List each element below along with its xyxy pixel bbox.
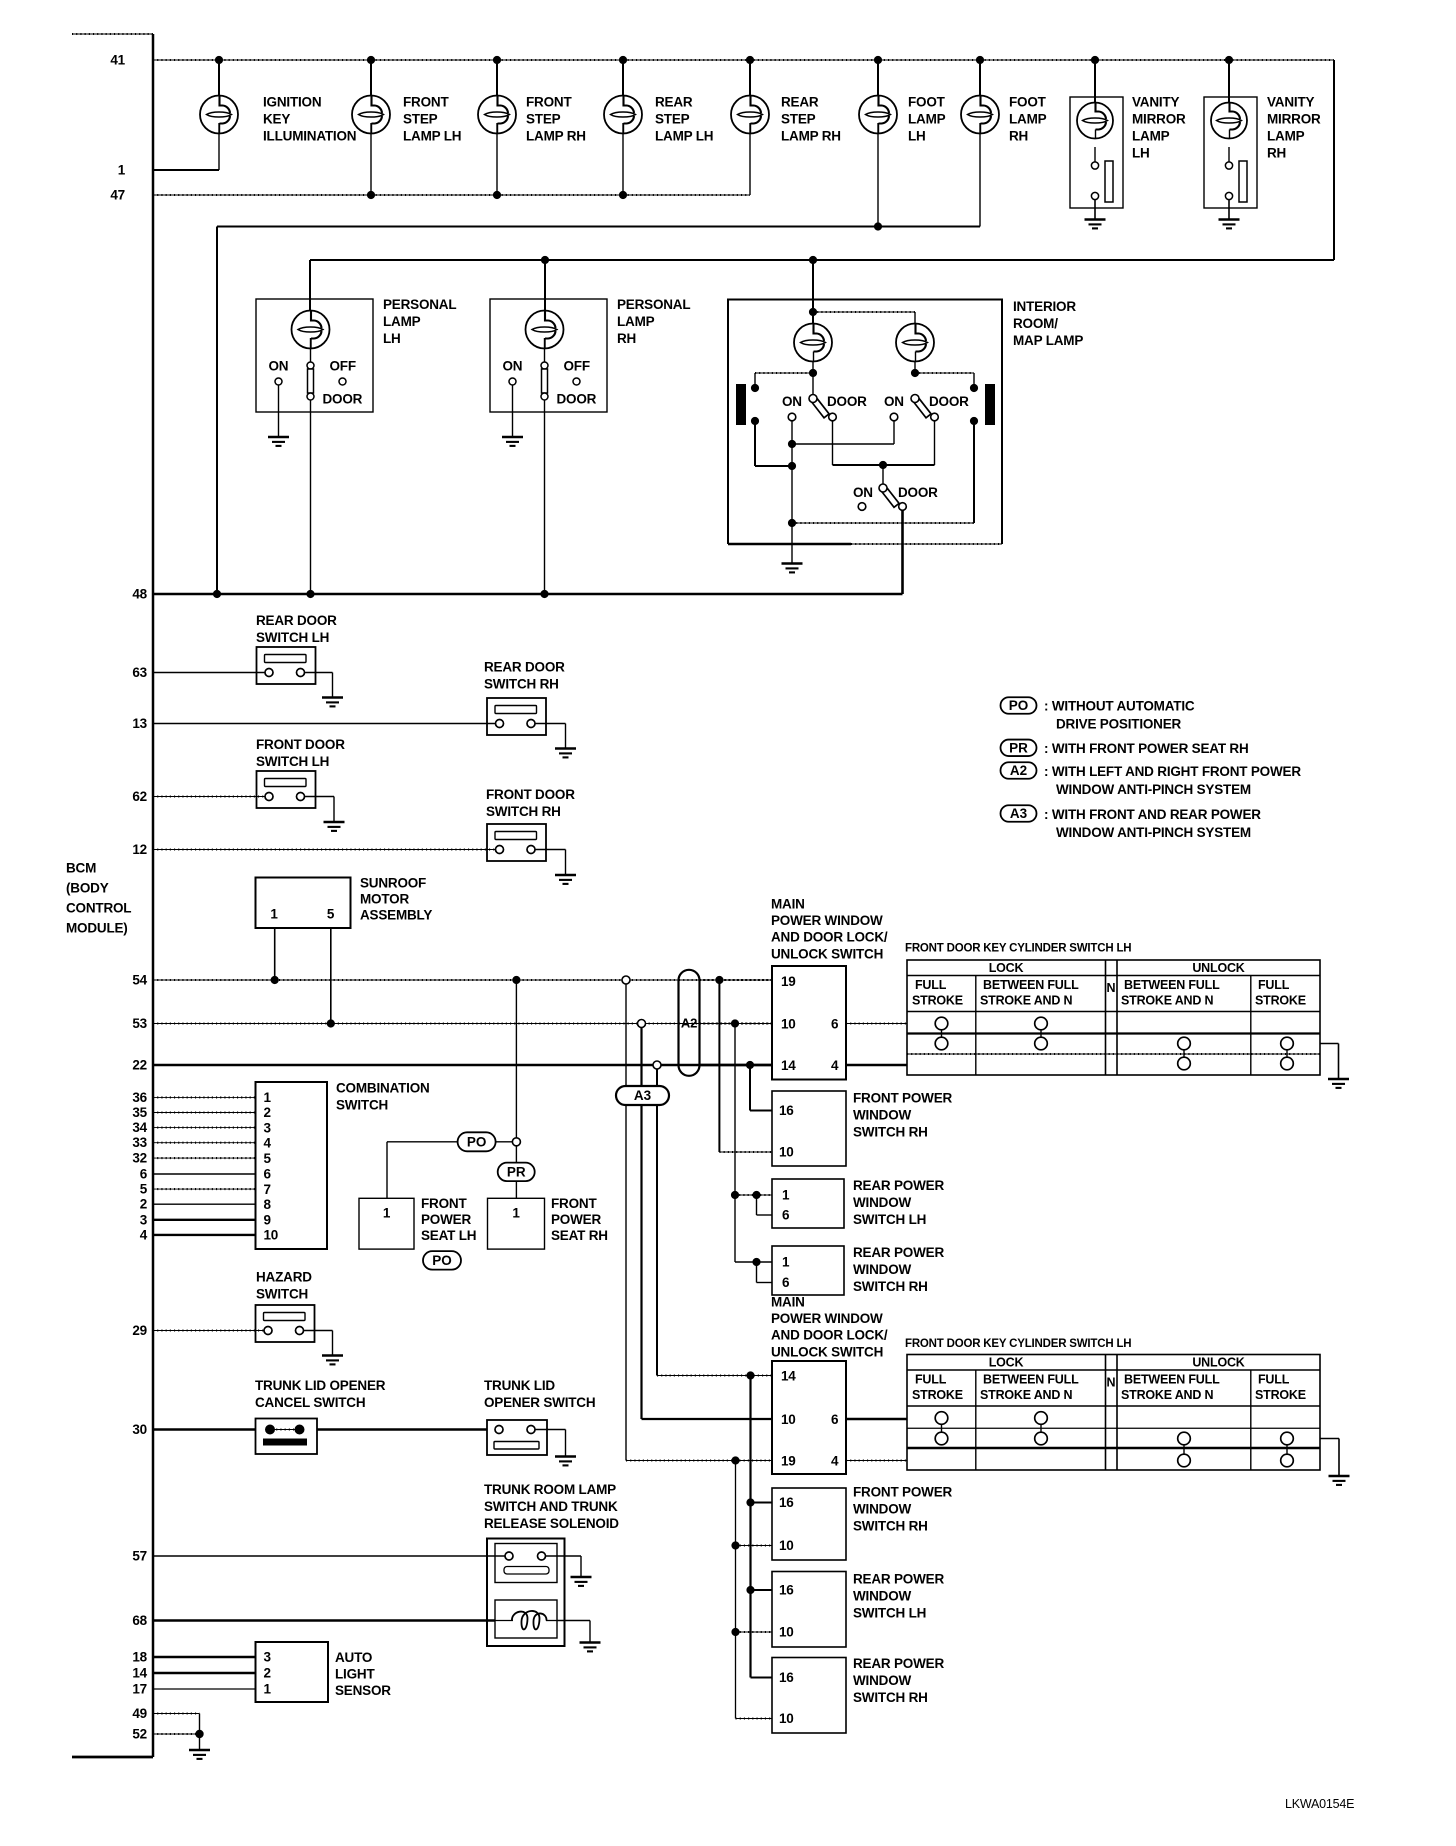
wire sunroof pin 1 to 54	[274, 928, 276, 980]
label: IGNITION ILLUMINATION	[263, 95, 356, 144]
label: personal lamp LH	[383, 297, 456, 346]
auto light sensor	[256, 1642, 329, 1702]
interior lamp right connector bar	[970, 384, 995, 425]
wire sunroof pin 5 to 53	[330, 928, 332, 1024]
svg-text:DOOR: DOOR	[323, 392, 363, 407]
svg-text:STROKE: STROKE	[1255, 1388, 1306, 1402]
label: rear door switch LH	[256, 613, 337, 645]
svg-text:62: 62	[132, 789, 147, 804]
svg-text:9: 9	[264, 1213, 271, 1228]
interior lamp switch 2	[890, 395, 938, 421]
svg-text:PO: PO	[432, 1253, 452, 1268]
svg-text:STEP: STEP	[781, 112, 816, 127]
label: combination switch	[336, 1081, 430, 1113]
interior lamp bulb 2	[896, 324, 934, 362]
label: FOOT RH	[1009, 95, 1047, 144]
svg-text:A2: A2	[1010, 763, 1027, 778]
front power seat RH	[488, 1198, 545, 1249]
svg-text:5: 5	[264, 1151, 272, 1166]
svg-text:FOOT: FOOT	[908, 95, 946, 110]
svg-text:STROKE: STROKE	[912, 1388, 963, 1402]
interior lamp switch 1 labels	[782, 394, 867, 409]
svg-text:FULL: FULL	[1258, 978, 1290, 992]
interior lamp switch 1	[788, 395, 836, 421]
svg-text:REAR POWER: REAR POWER	[853, 1656, 944, 1671]
bulb: front step lamp RH	[478, 96, 516, 134]
wire 53 branch to rear power window switches	[731, 1024, 772, 1283]
front door switch LH	[257, 771, 316, 808]
svg-text:LOCK: LOCK	[989, 961, 1024, 975]
junctions on wire 41	[215, 56, 1233, 64]
svg-text:FRONT: FRONT	[526, 95, 572, 110]
svg-text:: WITH FRONT POWER SEAT RH: : WITH FRONT POWER SEAT RH	[1044, 741, 1249, 756]
lamp feed wire x=219	[218, 60, 220, 96]
svg-text:41: 41	[110, 53, 125, 68]
svg-text:LAMP: LAMP	[1132, 129, 1170, 144]
svg-text:A2: A2	[681, 1015, 697, 1030]
svg-text:MIRROR: MIRROR	[1132, 112, 1186, 127]
combination switch	[256, 1082, 328, 1249]
label: main power window and door lock/unlock switch 2	[771, 1295, 888, 1360]
wire pin 63	[153, 672, 266, 674]
svg-text:AUTO: AUTO	[335, 1650, 372, 1665]
BCM connector edge (vertical bus line)	[152, 34, 155, 1757]
wire pin 17	[153, 1688, 256, 1690]
trunk room lamp switch and release solenoid box	[487, 1539, 565, 1647]
wire main switch 1 pin 4 to key cylinder	[846, 1064, 907, 1067]
svg-text:6: 6	[831, 1017, 839, 1032]
svg-text:POWER WINDOW: POWER WINDOW	[771, 1311, 883, 1326]
svg-text:PR: PR	[507, 1164, 526, 1179]
wire pin 14	[153, 1672, 256, 1675]
svg-text:FULL: FULL	[1258, 1373, 1290, 1387]
front door key cylinder switch table (lower)	[907, 1355, 1320, 1471]
svg-text:REAR POWER: REAR POWER	[853, 1245, 944, 1260]
wire pin 30	[153, 1428, 487, 1431]
trunk lid opener switch	[487, 1420, 547, 1455]
svg-text:SWITCH: SWITCH	[336, 1098, 388, 1113]
svg-text:SEAT LH: SEAT LH	[421, 1228, 476, 1243]
wire: foot lamp return to pin 47 branch	[217, 123, 980, 594]
label: trunk lid opener cancel switch	[255, 1378, 386, 1410]
wire PO capsule to front power seat LH	[387, 1142, 458, 1199]
svg-text:1: 1	[782, 1255, 790, 1270]
key cylinder lower ground	[1320, 1439, 1350, 1485]
rear power window switch LH 1	[772, 1179, 844, 1228]
svg-text:LAMP RH: LAMP RH	[526, 129, 586, 144]
lamp feed wire x=371	[370, 60, 372, 96]
BCM bottom-left stub wire	[72, 1756, 153, 1759]
svg-text:19: 19	[781, 1454, 796, 1469]
trunk room lamp switch	[495, 1544, 557, 1583]
svg-text:16: 16	[779, 1495, 794, 1510]
legend PO capsule	[1001, 697, 1037, 714]
svg-text:UNLOCK SWITCH: UNLOCK SWITCH	[771, 946, 883, 961]
svg-text:SENSOR: SENSOR	[335, 1683, 391, 1698]
label: sunroof motor assembly	[360, 876, 432, 923]
svg-text:MIRROR: MIRROR	[1267, 112, 1321, 127]
PR option capsule	[498, 1163, 535, 1182]
svg-text:BETWEEN FULL: BETWEEN FULL	[1124, 978, 1220, 992]
svg-text:WINDOW: WINDOW	[853, 1673, 911, 1688]
label: FOOT LH	[908, 95, 946, 144]
wire 48 (door switch bus)	[153, 590, 903, 598]
svg-text:34: 34	[132, 1120, 147, 1135]
svg-text:4: 4	[831, 1058, 839, 1073]
svg-text:RH: RH	[1267, 146, 1286, 161]
svg-text:STEP: STEP	[526, 112, 561, 127]
wire: 54 branch down to switch 2 pin 19	[626, 984, 772, 1465]
svg-text:LAMP: LAMP	[1009, 112, 1047, 127]
personal lamp LH	[256, 299, 373, 594]
bulb: ignition key illumination	[200, 96, 238, 134]
svg-text:17: 17	[132, 1682, 147, 1697]
wire 54 branch to power seats	[515, 980, 517, 1138]
svg-text:LAMP: LAMP	[908, 112, 946, 127]
svg-text:SWITCH RH: SWITCH RH	[853, 1125, 928, 1140]
svg-text:AND DOOR LOCK/: AND DOOR LOCK/	[771, 930, 888, 945]
svg-text:SUNROOF: SUNROOF	[360, 876, 426, 891]
wire 22 branch to front power window switch RH pin 16	[750, 1065, 772, 1111]
svg-text:ILLUMINATION: ILLUMINATION	[263, 129, 356, 144]
bulb: rear step lamp RH	[731, 96, 769, 134]
svg-text:LAMP: LAMP	[383, 314, 421, 329]
svg-text:A3: A3	[634, 1088, 652, 1103]
svg-text:UNLOCK: UNLOCK	[1192, 961, 1244, 975]
rear door switch LH	[257, 647, 316, 684]
bulb: foot lamp LH	[859, 96, 897, 134]
svg-text:OFF: OFF	[564, 359, 590, 374]
svg-text:STEP: STEP	[655, 112, 690, 127]
svg-text:SEAT RH: SEAT RH	[551, 1228, 608, 1243]
front door switch RH ground	[535, 850, 577, 884]
svg-text:BETWEEN FULL: BETWEEN FULL	[983, 1373, 1079, 1387]
svg-text:CANCEL SWITCH: CANCEL SWITCH	[255, 1395, 365, 1410]
svg-text:FRONT DOOR KEY CYLINDER SWITCH: FRONT DOOR KEY CYLINDER SWITCH LH	[905, 943, 1131, 955]
svg-text:ON: ON	[269, 359, 289, 374]
svg-text:MOTOR: MOTOR	[360, 892, 409, 907]
PO option capsule	[458, 1132, 496, 1151]
legend A2 text	[1044, 764, 1301, 797]
connector circle above PR	[512, 1138, 520, 1146]
svg-text:SWITCH RH: SWITCH RH	[853, 1690, 928, 1705]
wire PO capsule to connector circle	[496, 1141, 513, 1143]
svg-text:2: 2	[264, 1666, 271, 1681]
svg-text:16: 16	[779, 1670, 794, 1685]
svg-text:FULL: FULL	[915, 1373, 947, 1387]
svg-text:REAR POWER: REAR POWER	[853, 1572, 944, 1587]
svg-text:4: 4	[831, 1454, 839, 1469]
hazard switch ground	[303, 1331, 343, 1365]
label: REAR LAMP RH	[781, 95, 841, 144]
wire 54	[153, 976, 772, 984]
svg-text:(BODY: (BODY	[66, 881, 109, 896]
svg-text:SWITCH LH: SWITCH LH	[256, 630, 329, 645]
label: main power window and door lock/unlock switch 1	[771, 897, 888, 962]
front power window switch RH 2	[772, 1488, 846, 1560]
wire 22	[153, 1061, 772, 1069]
label: front door switch RH	[486, 787, 575, 819]
svg-text:1: 1	[118, 163, 126, 178]
svg-text:AND DOOR LOCK/: AND DOOR LOCK/	[771, 1328, 888, 1343]
trunk lid opener switch ground	[535, 1430, 577, 1466]
svg-text:53: 53	[132, 1016, 147, 1031]
svg-text:35: 35	[132, 1105, 147, 1120]
svg-text:1: 1	[264, 1682, 272, 1697]
svg-text:WINDOW: WINDOW	[853, 1589, 911, 1604]
svg-text:7: 7	[264, 1182, 271, 1197]
svg-text:REAR POWER: REAR POWER	[853, 1178, 944, 1193]
wire: room lamp supply branch	[310, 60, 1334, 324]
rear power window switch LH 2	[772, 1572, 846, 1648]
svg-text:36: 36	[132, 1090, 147, 1105]
svg-text:SWITCH RH: SWITCH RH	[853, 1279, 928, 1294]
svg-text:STROKE: STROKE	[912, 994, 963, 1008]
svg-text:1: 1	[512, 1206, 520, 1221]
wire pin 68	[153, 1619, 495, 1622]
wire: thick branch to pin 16 rows	[746, 1376, 772, 1678]
svg-text:FRONT DOOR: FRONT DOOR	[486, 787, 575, 802]
interior lamp internal wiring	[755, 308, 974, 395]
combination switch pin wires	[153, 1097, 256, 1235]
label: VANITY LH	[1132, 95, 1186, 161]
wire pin 52	[153, 1733, 200, 1735]
svg-text:10: 10	[264, 1228, 279, 1243]
A2 option capsule on wires	[679, 970, 700, 1076]
key cylinder upper ground	[1320, 1044, 1349, 1088]
svg-text:DOOR: DOOR	[898, 485, 938, 500]
wire 41 (lamp supply bus)	[153, 59, 1334, 61]
interior lamp door-contact wiring	[755, 421, 974, 564]
svg-text:8: 8	[264, 1197, 272, 1212]
wire pin 29	[153, 1330, 266, 1332]
svg-text:PO: PO	[467, 1134, 487, 1149]
front power window switch RH 1	[772, 1091, 846, 1166]
svg-text:LH: LH	[1132, 146, 1150, 161]
svg-text:5: 5	[140, 1182, 148, 1197]
svg-text:WINDOW: WINDOW	[853, 1262, 911, 1277]
svg-text:STROKE AND N: STROKE AND N	[1121, 1388, 1213, 1402]
label: FRONT LAMP RH	[526, 95, 586, 144]
svg-text:10: 10	[781, 1017, 796, 1032]
main power window and door lock/unlock switch 2	[772, 1361, 846, 1474]
front door switch LH ground	[304, 797, 345, 831]
svg-text:SWITCH LH: SWITCH LH	[256, 754, 329, 769]
svg-text:13: 13	[132, 716, 147, 731]
connector circle on 54	[622, 976, 630, 984]
svg-text:14: 14	[132, 1666, 147, 1681]
lamp feed wire x=980	[979, 60, 981, 96]
svg-text:48: 48	[132, 587, 147, 602]
svg-text:COMBINATION: COMBINATION	[336, 1081, 430, 1096]
svg-text:52: 52	[132, 1727, 147, 1742]
label: interior room/map lamp	[1013, 299, 1083, 348]
svg-text:LAMP LH: LAMP LH	[655, 129, 713, 144]
svg-text:REAR DOOR: REAR DOOR	[484, 660, 565, 675]
svg-text:3: 3	[140, 1212, 148, 1227]
label: rear door switch RH	[484, 660, 565, 692]
rear door switch RH ground	[535, 724, 577, 758]
svg-text:DRIVE POSITIONER: DRIVE POSITIONER	[1056, 717, 1182, 732]
svg-text:WINDOW: WINDOW	[853, 1195, 911, 1210]
svg-text:DOOR: DOOR	[929, 394, 969, 409]
front door switch RH	[487, 824, 546, 861]
svg-text:MAIN: MAIN	[771, 1295, 805, 1310]
svg-text:PO: PO	[1009, 698, 1029, 713]
svg-text:FRONT POWER: FRONT POWER	[853, 1091, 952, 1106]
svg-text:6: 6	[782, 1208, 790, 1223]
svg-text:BETWEEN FULL: BETWEEN FULL	[1124, 1373, 1220, 1387]
svg-text:DOOR: DOOR	[557, 392, 597, 407]
svg-text:REAR: REAR	[655, 95, 693, 110]
svg-text:DOOR: DOOR	[827, 394, 867, 409]
wire 54/53/22 segments through A2 capsule	[679, 980, 772, 1065]
personal lamp RH	[490, 299, 607, 594]
svg-text:FRONT: FRONT	[551, 1196, 597, 1211]
main power window and door lock/unlock switch 1	[772, 966, 846, 1080]
trunk release solenoid	[495, 1600, 557, 1638]
svg-text:LKWA0154E: LKWA0154E	[1285, 1797, 1354, 1811]
wire: interior lamp to pin 48	[901, 511, 904, 594]
svg-text:VANITY: VANITY	[1132, 95, 1179, 110]
svg-text:FRONT: FRONT	[421, 1196, 467, 1211]
label: rear power window switch RH 2	[853, 1656, 944, 1705]
svg-text:SWITCH RH: SWITCH RH	[484, 677, 559, 692]
bulb: rear step lamp LH	[604, 96, 642, 134]
wire main switch 2 pin 6 to key cylinder	[846, 1418, 907, 1421]
svg-text:30: 30	[132, 1422, 147, 1437]
svg-text:16: 16	[779, 1583, 794, 1598]
svg-text:TRUNK LID: TRUNK LID	[484, 1378, 555, 1393]
svg-text:3: 3	[264, 1120, 272, 1135]
svg-text:1: 1	[270, 907, 278, 922]
wire pin 18	[153, 1656, 256, 1659]
label: auto light sensor	[335, 1650, 391, 1698]
svg-text:N: N	[1107, 1376, 1116, 1390]
svg-text:6: 6	[140, 1167, 148, 1182]
svg-text:ON: ON	[853, 485, 873, 500]
svg-text:33: 33	[132, 1135, 147, 1150]
lamp feed wire x=878	[877, 60, 879, 96]
svg-text:68: 68	[132, 1613, 147, 1628]
svg-text:54: 54	[132, 973, 147, 988]
lamp feed wire x=623	[622, 60, 624, 96]
trunk lid opener cancel switch	[256, 1419, 318, 1455]
svg-text:FOOT: FOOT	[1009, 95, 1047, 110]
wire: thin branch to pin 10 rows	[731, 1461, 772, 1719]
svg-text:PERSONAL: PERSONAL	[617, 297, 690, 312]
svg-text:STEP: STEP	[403, 112, 438, 127]
svg-text:WINDOW: WINDOW	[853, 1502, 911, 1517]
label: hazard switch	[256, 1270, 312, 1302]
lamp feed wire x=750	[749, 60, 751, 96]
svg-text:LIGHT: LIGHT	[335, 1667, 375, 1682]
trunk release solenoid ground	[557, 1621, 601, 1652]
svg-text:4: 4	[264, 1135, 272, 1150]
svg-text:STROKE AND N: STROKE AND N	[980, 994, 1072, 1008]
svg-text:HAZARD: HAZARD	[256, 1270, 312, 1285]
svg-text:32: 32	[132, 1151, 147, 1166]
svg-text:ON: ON	[782, 394, 802, 409]
lamp feed wire x=497	[496, 60, 498, 96]
svg-text:LAMP LH: LAMP LH	[403, 129, 461, 144]
interior lamp switch 2 labels	[884, 394, 969, 409]
svg-text:SWITCH RH: SWITCH RH	[486, 804, 561, 819]
svg-text:RELEASE SOLENOID: RELEASE SOLENOID	[484, 1516, 619, 1531]
rear door switch LH ground	[304, 673, 343, 707]
label: trunk room lamp switch and trunk release solenoid	[484, 1482, 619, 1531]
PO option capsule below seat LH	[423, 1251, 461, 1270]
wire pin 13	[153, 723, 497, 725]
svg-text:18: 18	[132, 1650, 147, 1665]
svg-text:BCM: BCM	[66, 861, 96, 876]
svg-text:INTERIOR: INTERIOR	[1013, 299, 1076, 314]
BCM top-left stub wire	[72, 33, 153, 35]
wire: 22 branch down to switch 2 pin 14	[657, 1069, 772, 1380]
svg-text:10: 10	[779, 1538, 794, 1553]
svg-text:: WITH LEFT AND RIGHT FRONT PO: : WITH LEFT AND RIGHT FRONT POWER	[1044, 764, 1301, 779]
label: trunk lid opener switch	[484, 1378, 595, 1410]
vanity mirror lamp LH	[1070, 60, 1123, 228]
svg-text:LH: LH	[908, 129, 926, 144]
svg-text:RH: RH	[617, 331, 636, 346]
label: FRONT LAMP LH	[403, 95, 461, 144]
label: rear power window switch RH 1	[853, 1245, 944, 1294]
wire main switch 2 pin 4 to key cylinder	[846, 1460, 907, 1462]
svg-text:LAMP: LAMP	[1267, 129, 1305, 144]
legend PR capsule	[1001, 740, 1037, 757]
svg-text:10: 10	[781, 1412, 796, 1427]
svg-text:63: 63	[132, 665, 147, 680]
svg-text:3: 3	[264, 1650, 272, 1665]
svg-text:ASSEMBLY: ASSEMBLY	[360, 908, 432, 923]
svg-text:2: 2	[264, 1105, 271, 1120]
svg-text:2: 2	[140, 1197, 147, 1212]
svg-text:57: 57	[132, 1549, 147, 1564]
front power seat LH	[359, 1198, 414, 1249]
svg-text:FRONT DOOR KEY CYLINDER SWITCH: FRONT DOOR KEY CYLINDER SWITCH LH	[905, 1338, 1131, 1350]
svg-text:UNLOCK: UNLOCK	[1192, 1356, 1244, 1370]
svg-text:WINDOW: WINDOW	[853, 1108, 911, 1123]
wire pin 1 to ignition key illumination	[153, 123, 219, 170]
label: front door switch LH	[256, 737, 345, 769]
hazard switch	[256, 1305, 315, 1342]
svg-text:SWITCH LH: SWITCH LH	[853, 1606, 926, 1621]
svg-text:ON: ON	[884, 394, 904, 409]
wire 49/52 to ground	[189, 1714, 210, 1759]
svg-text:12: 12	[132, 842, 147, 857]
A3 option capsule on wires	[616, 1086, 669, 1105]
svg-text:6: 6	[782, 1275, 790, 1290]
svg-text:14: 14	[781, 1369, 796, 1384]
svg-text:REAR DOOR: REAR DOOR	[256, 613, 337, 628]
svg-text:OPENER SWITCH: OPENER SWITCH	[484, 1395, 595, 1410]
svg-text:PR: PR	[1009, 740, 1028, 755]
trunk room lamp switch ground	[545, 1556, 592, 1586]
svg-text:LAMP RH: LAMP RH	[781, 129, 841, 144]
rear door switch RH	[487, 698, 546, 735]
svg-text:RH: RH	[1009, 129, 1028, 144]
label: personal lamp RH	[617, 297, 690, 346]
BCM pin number labels	[110, 53, 147, 1742]
bulb: front step lamp LH	[352, 96, 390, 134]
svg-text:SWITCH LH: SWITCH LH	[853, 1212, 926, 1227]
svg-text:FRONT POWER: FRONT POWER	[853, 1485, 952, 1500]
svg-text:UNLOCK SWITCH: UNLOCK SWITCH	[771, 1344, 883, 1359]
svg-text:6: 6	[264, 1167, 272, 1182]
svg-text:SWITCH RH: SWITCH RH	[853, 1519, 928, 1534]
rear power window switch RH 1	[772, 1246, 844, 1295]
